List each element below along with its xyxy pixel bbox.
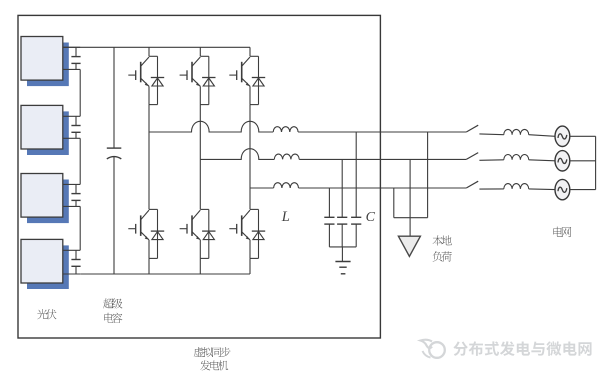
wire: phase A to breaker bbox=[298, 131, 466, 133]
wire: phase C grid link bbox=[479, 188, 503, 190]
wire: load tap phase B bbox=[409, 159, 411, 217]
label: supercapacitor 超级电容 bbox=[103, 298, 122, 323]
capacitor C4: PV4 dc-link cap bbox=[71, 250, 80, 274]
diode D4: freewheel bbox=[151, 209, 164, 258]
AC source G3: grid phase C bbox=[555, 179, 570, 199]
IGBT Q6 (lower) bbox=[229, 209, 258, 258]
diode D1: freewheel of Q1 bbox=[151, 56, 164, 104]
label: virtual synchronous generator 虚拟同步发电机 bbox=[194, 347, 231, 370]
PV panel PV2 bbox=[21, 105, 69, 155]
switch S2: phase B breaker bbox=[466, 153, 478, 160]
switch S1: phase A breaker bbox=[466, 125, 478, 132]
wire: phase C tap bbox=[249, 105, 251, 188]
wire: phase B tap bbox=[199, 105, 201, 160]
inductor L4: grid inductance phase A bbox=[504, 129, 529, 134]
capacitor C2: PV2 dc-link cap bbox=[71, 116, 80, 138]
wire: phase leg down-link bbox=[199, 159, 201, 209]
wire: PV4 positive terminal bbox=[63, 249, 80, 251]
wire: phase B grid link bbox=[479, 159, 503, 162]
wire: DC- bus bbox=[80, 273, 250, 275]
IGBT Q1 (upper, leg 1) bbox=[128, 47, 157, 104]
wire: PV1 negative terminal bbox=[63, 68, 80, 70]
capacitor C1: PV1 dc-link cap bbox=[71, 47, 80, 69]
wire: PV3 positive terminal bbox=[63, 183, 80, 185]
wire: cap bank common bbox=[329, 247, 356, 262]
wire: Q3 emitter joint bbox=[250, 104, 259, 106]
label: PV 光伏 bbox=[37, 309, 56, 319]
wire: series link from PV2 bbox=[79, 138, 81, 184]
diode D2: freewheel of Q2 bbox=[202, 56, 215, 104]
inductor L5: grid inductance phase B bbox=[504, 154, 529, 159]
capacitor C3: PV3 dc-link cap bbox=[71, 184, 80, 206]
ground: filter neutral bbox=[335, 262, 350, 274]
capacitor C7: filter cap phase B bbox=[337, 159, 347, 247]
wire: load tap phase C bbox=[393, 188, 395, 218]
wire: grid neutral bus bbox=[570, 136, 596, 189]
wire: Q2 emitter joint bbox=[200, 104, 209, 106]
capacitor C5: supercapacitor bbox=[107, 47, 122, 274]
inductor L1: phase A filter bbox=[273, 127, 298, 132]
wire: phase leg down-link bbox=[249, 188, 251, 209]
label: watermark 分布式发电与微电网 bbox=[453, 341, 591, 356]
wire: emitter joint to DC- bus bbox=[149, 258, 158, 274]
IGBT Q2 (upper, leg 2) bbox=[180, 47, 209, 104]
IGBT Q4 (lower) bbox=[128, 209, 157, 258]
diode D6: freewheel bbox=[252, 209, 265, 258]
wire: series link from PV3 bbox=[79, 206, 81, 250]
AC source G1: grid phase A bbox=[555, 126, 570, 146]
wire: DC+ bus bbox=[63, 46, 250, 48]
wire: phase A tap bbox=[148, 105, 150, 132]
AC source G2: grid phase B bbox=[555, 151, 570, 171]
wire: series link from PV4 bbox=[79, 273, 81, 275]
PV panel PV3 bbox=[21, 174, 69, 224]
label: grid 电网 bbox=[553, 227, 571, 237]
wire: load common bar bbox=[394, 218, 428, 237]
wire: PV2 negative terminal bbox=[63, 137, 80, 139]
inductor L6: grid inductance phase C bbox=[504, 184, 529, 189]
wire: phase A grid link bbox=[479, 133, 503, 136]
inductor L3: phase C filter bbox=[274, 183, 299, 188]
logo: watermark icon bbox=[421, 340, 445, 358]
inductor L2: phase B filter bbox=[274, 154, 299, 159]
wire: PV3 negative terminal bbox=[63, 205, 80, 207]
capacitor C6: filter cap phase C bbox=[324, 188, 334, 247]
label: local load 本地负荷 bbox=[433, 235, 452, 261]
PV panel PV4 bbox=[21, 239, 69, 289]
wire: phase C line bbox=[250, 187, 274, 189]
wire: phase C to breaker bbox=[299, 187, 467, 189]
IGBT Q5 (lower) bbox=[180, 209, 209, 258]
wire: phase B line with crossover hop bbox=[200, 149, 274, 160]
wire: PV4 negative terminal bbox=[63, 273, 80, 275]
svg-text:L: L bbox=[281, 209, 290, 225]
wire: emitter joint to DC- bus bbox=[250, 258, 259, 274]
wire: phase leg down-link bbox=[148, 132, 150, 209]
wire: PV1 positive terminal bbox=[63, 46, 80, 48]
wire: phase B to breaker bbox=[299, 158, 466, 160]
svg-text:C: C bbox=[366, 210, 376, 225]
wire: to source G2 bbox=[529, 160, 556, 161]
capacitor C8: filter cap phase A bbox=[351, 132, 361, 247]
wire: PV2 positive terminal bbox=[63, 115, 80, 117]
diode D5: freewheel bbox=[202, 209, 215, 258]
wire: to source G3 bbox=[529, 188, 556, 191]
wire: series link from PV1 bbox=[79, 69, 81, 116]
enclosure box: virtual synchronous generator boundary bbox=[18, 15, 380, 338]
wire: phase A line with crossover hops bbox=[149, 121, 273, 132]
wire: to source G1 bbox=[529, 135, 556, 137]
PV panel PV1 bbox=[21, 37, 69, 87]
IGBT Q3 (upper, leg 3) bbox=[229, 47, 258, 104]
wire: Q1 emitter joint bbox=[149, 104, 158, 106]
wire: emitter joint to DC- bus bbox=[200, 258, 209, 274]
load: local load arrow symbol bbox=[398, 236, 420, 256]
wire: load tap phase A bbox=[427, 132, 429, 218]
switch S3: phase C breaker bbox=[466, 181, 478, 188]
diode D3: freewheel of Q3 bbox=[252, 56, 265, 104]
